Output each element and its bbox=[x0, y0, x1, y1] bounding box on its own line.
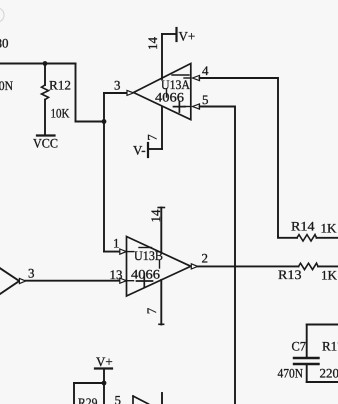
partial connector arc top-left bbox=[0, 8, 4, 22]
wire R29 lead bbox=[73, 383, 75, 404]
resistor R14 bbox=[278, 237, 297, 238]
svg-text:R14: R14 bbox=[291, 219, 315, 234]
plus mark U13B bbox=[137, 274, 153, 287]
pin arrow U13B pin2 bbox=[191, 264, 197, 269]
wire pin 13 of U13B bbox=[26, 280, 126, 282]
svg-text:14: 14 bbox=[145, 37, 160, 51]
plus mark U13A bbox=[174, 102, 186, 113]
pin arrow U13A pin4 bbox=[193, 75, 200, 80]
svg-text:5: 5 bbox=[202, 92, 209, 107]
svg-text:C7: C7 bbox=[292, 339, 307, 354]
wire to V- bbox=[149, 148, 163, 150]
VCC power symbol bbox=[37, 134, 55, 136]
svg-text:00N: 00N bbox=[0, 78, 14, 93]
pin 14 wire bottom gate bbox=[161, 393, 163, 404]
pin arrow U13A pin5 bbox=[193, 104, 200, 109]
pin 1 stub inside bbox=[127, 251, 134, 253]
pin arrow U13A pin3 bbox=[127, 90, 134, 95]
wire branch left bbox=[74, 382, 104, 384]
pin 14 wire U13A bbox=[161, 34, 163, 79]
wire pin 1 of U13B bbox=[104, 251, 126, 253]
wire pin 3 of U13A bbox=[104, 92, 127, 94]
wire R12 bottom lead bbox=[44, 100, 46, 135]
svg-text:470N: 470N bbox=[278, 366, 304, 381]
svg-text:R29: R29 bbox=[78, 395, 98, 404]
op-amp U13B (4066 switch) bbox=[127, 237, 191, 297]
svg-text:V-: V- bbox=[133, 143, 146, 158]
pin arrow U13B pin1 bbox=[120, 249, 127, 254]
V+ power bar bbox=[175, 28, 177, 41]
gate U13C partial bbox=[133, 396, 149, 404]
wire V+ down bbox=[103, 369, 105, 404]
wire right branch down bbox=[75, 64, 77, 122]
svg-text:7: 7 bbox=[144, 307, 159, 314]
op-amp U13A (4066 switch) bbox=[134, 64, 191, 120]
svg-text:4: 4 bbox=[202, 63, 209, 78]
wire pin5 down to bottom bbox=[200, 107, 236, 404]
svg-text:V+: V+ bbox=[96, 354, 113, 369]
V- power bar bbox=[147, 143, 149, 157]
pin 13 stub inside bbox=[127, 280, 134, 282]
svg-text:3: 3 bbox=[114, 78, 121, 93]
pin 14 wire U13B bbox=[160, 208, 162, 253]
pin 7 wire U13B bbox=[160, 280, 162, 325]
junction dot B bbox=[102, 119, 107, 124]
wire bottom rail bbox=[307, 381, 338, 383]
svg-text:7: 7 bbox=[145, 134, 160, 141]
svg-text:1K: 1K bbox=[321, 268, 338, 283]
svg-text:13: 13 bbox=[110, 267, 123, 282]
gate apex (partial, lower-left) bbox=[0, 268, 19, 294]
svg-text:1K: 1K bbox=[321, 221, 338, 236]
wire pin4 bbox=[200, 78, 279, 237]
control stub U13B bbox=[159, 261, 161, 269]
wire top horizontal bbox=[0, 63, 76, 65]
resistor R13 on pin2 net bbox=[198, 265, 299, 267]
pin arrow U13B pin13 bbox=[120, 278, 127, 283]
wire to node bbox=[76, 121, 105, 123]
svg-text:10K: 10K bbox=[51, 106, 71, 121]
svg-text:2200: 2200 bbox=[320, 366, 338, 381]
svg-text:5: 5 bbox=[115, 393, 122, 404]
pin arrow gate output bbox=[19, 278, 25, 283]
svg-text:3: 3 bbox=[28, 266, 35, 281]
pin 4 stub inside bbox=[184, 77, 190, 79]
svg-text:V+: V+ bbox=[179, 29, 196, 44]
control stub U13A bbox=[166, 89, 168, 97]
junction dot A bbox=[43, 61, 48, 66]
overbar U13A bbox=[172, 74, 189, 76]
svg-text:R13: R13 bbox=[278, 267, 302, 282]
capacitor C7 bottom lead bbox=[306, 365, 308, 382]
capacitor C7 plates bbox=[294, 358, 319, 364]
resistor R12 bbox=[42, 85, 49, 100]
svg-text:14: 14 bbox=[148, 209, 163, 223]
svg-text:1: 1 bbox=[113, 236, 120, 251]
pin 7 bottom tick bbox=[159, 323, 164, 325]
overbar U13B bbox=[139, 247, 152, 249]
wire top rail bbox=[307, 324, 338, 326]
wire to V+ bbox=[162, 33, 176, 35]
junction dot C bbox=[102, 381, 107, 386]
pin 5 stub inside bbox=[184, 106, 190, 108]
pin 14 top tick bbox=[158, 207, 164, 209]
svg-text:VCC: VCC bbox=[33, 136, 58, 151]
pin 7 wire U13A bbox=[161, 107, 163, 149]
capacitor C7 top lead bbox=[306, 325, 308, 358]
V+ bar bbox=[95, 367, 112, 369]
wire vertical net pin3 to pin1 bbox=[103, 93, 105, 252]
svg-text:2: 2 bbox=[202, 251, 209, 266]
svg-text:4066: 4066 bbox=[131, 267, 161, 282]
svg-text:R17: R17 bbox=[322, 339, 338, 354]
wire R12 top lead bbox=[44, 64, 46, 86]
svg-text:80: 80 bbox=[0, 36, 9, 51]
svg-text:R12: R12 bbox=[49, 78, 71, 93]
